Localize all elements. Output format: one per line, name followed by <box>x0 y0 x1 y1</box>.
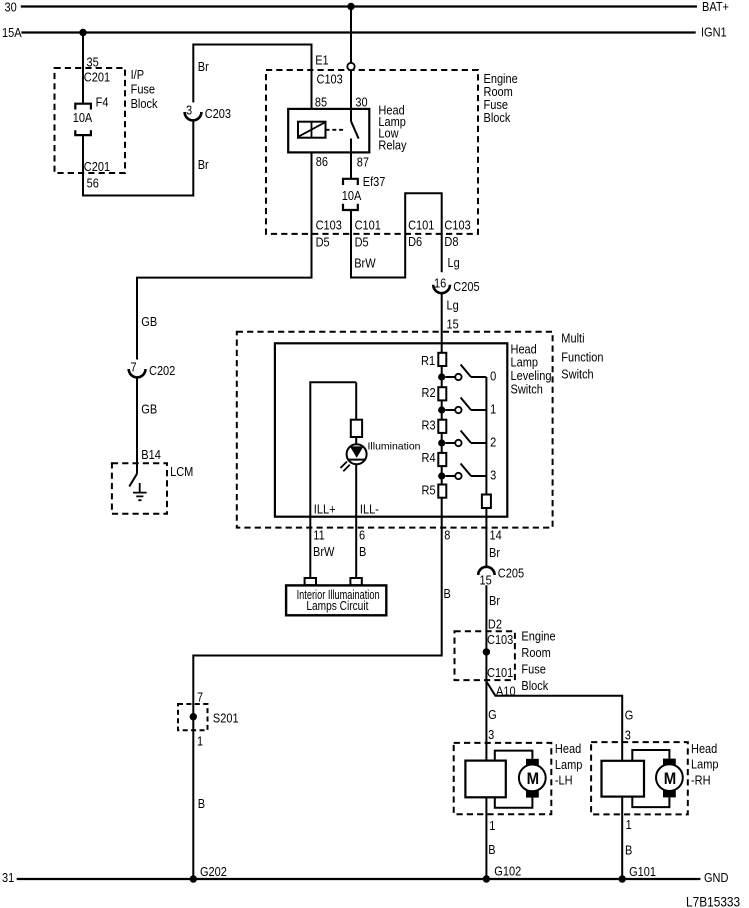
resistor R3 <box>438 420 446 433</box>
wire ILL+ pin 11 branch <box>310 382 356 578</box>
svg-text:D2: D2 <box>488 618 502 632</box>
switch contact 0 <box>445 365 486 378</box>
svg-text:Leveling: Leveling <box>511 370 552 384</box>
svg-text:IGN1: IGN1 <box>701 26 727 40</box>
wire bus30 down to relay pin 30 <box>350 7 352 122</box>
svg-text:G: G <box>488 708 497 722</box>
wire motor loop RH <box>632 750 669 807</box>
svg-text:8: 8 <box>444 529 451 543</box>
svg-text:R5: R5 <box>422 484 436 498</box>
wire relay pin 86 to C202 (GB) <box>137 152 312 359</box>
switch contact 3 <box>445 464 486 477</box>
connector C203 (half circle) <box>185 112 202 120</box>
svg-text:3: 3 <box>488 728 495 742</box>
svg-text:M: M <box>664 770 676 788</box>
ground symbol inside LCM <box>133 483 147 500</box>
wire fuse F4 to connector C203 <box>83 121 193 196</box>
svg-text:Relay: Relay <box>378 139 406 153</box>
svg-text:C103: C103 <box>316 219 343 233</box>
wire C202 to LCM B14 <box>136 377 138 474</box>
svg-text:Fuse: Fuse <box>131 83 156 97</box>
svg-text:BrW: BrW <box>354 257 376 271</box>
svg-text:ILL-: ILL- <box>360 503 379 517</box>
wire ILL- branch down to resistor <box>355 382 357 419</box>
node junction inside fuse block <box>483 648 490 655</box>
svg-text:87: 87 <box>357 156 369 170</box>
svg-text:16: 16 <box>434 277 447 291</box>
svg-text:3: 3 <box>186 104 193 118</box>
wire C203 to relay pin 85 (E1/C103) <box>193 45 311 109</box>
resistor R5 <box>438 485 446 498</box>
svg-text:Fuse: Fuse <box>521 663 546 677</box>
wire relay pin 87 stub <box>350 139 352 153</box>
node splice S201 <box>190 713 197 720</box>
svg-text:C101: C101 <box>487 666 513 680</box>
wire R2 to R3 <box>441 400 443 419</box>
svg-text:Switch: Switch <box>561 368 593 382</box>
node junction tap 2 <box>438 439 445 446</box>
svg-text:B14: B14 <box>141 448 161 462</box>
wire bus 30 (BAT+) <box>21 5 697 7</box>
wire relay pin 87 to fuse Ef37 <box>350 152 352 178</box>
svg-text:Head: Head <box>555 743 581 757</box>
svg-text:D5: D5 <box>355 236 369 250</box>
svg-text:A10: A10 <box>496 685 516 699</box>
svg-text:Lamps Circuit: Lamps Circuit <box>306 599 368 613</box>
svg-text:Br: Br <box>198 158 209 172</box>
svg-text:LCM: LCM <box>170 465 193 479</box>
svg-text:R1: R1 <box>421 355 435 369</box>
terminal stub pin 11 <box>305 578 316 585</box>
svg-text:L7B15333: L7B15333 <box>686 894 740 908</box>
svg-text:C101: C101 <box>355 219 381 233</box>
wire Ef37 to C205 pin16 (BrW/Lg jog through C101 D6 - C103 D8) <box>351 193 442 277</box>
node junction tap 1 <box>438 406 445 413</box>
wire switch common bus to pin 14 <box>485 377 487 567</box>
svg-text:10A: 10A <box>342 189 362 203</box>
node open circle at fuse block edge <box>347 63 354 70</box>
svg-text:C205: C205 <box>453 280 480 294</box>
relay contact blade <box>351 122 358 139</box>
svg-text:15A: 15A <box>2 26 22 40</box>
motor brush RH bottom <box>663 790 676 797</box>
resistor illumination <box>351 420 362 437</box>
svg-text:Head: Head <box>511 343 537 357</box>
svg-text:Lamp: Lamp <box>511 356 539 370</box>
svg-text:G: G <box>625 709 634 723</box>
wire C205-16 to R1 (Lg, pin 15 of MFS) <box>441 293 443 353</box>
svg-text:Lamp: Lamp <box>691 758 719 772</box>
svg-text:7: 7 <box>197 691 203 705</box>
svg-text:15: 15 <box>447 318 460 332</box>
resistor R1 <box>438 353 446 366</box>
svg-text:C103: C103 <box>487 633 514 647</box>
svg-text:BrW: BrW <box>313 545 335 559</box>
svg-text:Br: Br <box>489 594 500 608</box>
svg-text:G101: G101 <box>629 865 656 879</box>
svg-text:S201: S201 <box>213 712 239 726</box>
svg-text:I/P: I/P <box>131 68 145 82</box>
svg-text:Block: Block <box>484 111 511 125</box>
resistor R2 <box>438 387 446 400</box>
connector C205 pin 16 (half circle) <box>433 285 450 293</box>
svg-text:Room: Room <box>521 646 551 660</box>
svg-text:GB: GB <box>141 403 157 417</box>
svg-text:B: B <box>359 545 366 559</box>
svg-text:BAT+: BAT+ <box>702 0 729 14</box>
headlamp LH leveling actuator <box>465 761 505 798</box>
svg-text:GND: GND <box>704 871 728 885</box>
relay U1 Head Lamp Low Relay box <box>288 109 369 152</box>
relay coil-contact dashed link <box>326 129 346 131</box>
svg-text:B: B <box>198 797 205 811</box>
svg-text:3: 3 <box>490 469 497 483</box>
Engine Room Fuse Block box (relay) <box>266 70 478 234</box>
svg-text:F4: F4 <box>96 96 109 110</box>
wire bus 15A (IGN1) <box>21 31 695 33</box>
wire R1 to R2 <box>441 366 443 387</box>
node junction G102 <box>483 875 490 882</box>
connector C205 pin 15 (half circle cap) <box>478 567 494 575</box>
svg-text:30: 30 <box>355 96 368 110</box>
motor brush LH bottom <box>526 791 539 798</box>
LCM box <box>112 463 167 514</box>
svg-text:M: M <box>527 770 539 788</box>
svg-text:C103: C103 <box>317 73 344 87</box>
wire R4 to R5 <box>441 466 443 484</box>
svg-text:11: 11 <box>313 529 324 543</box>
motor brush RH top <box>663 759 676 766</box>
svg-text:G102: G102 <box>494 865 521 879</box>
svg-text:1: 1 <box>626 818 632 832</box>
terminal rect on common bus <box>482 495 491 509</box>
relay coil <box>298 122 326 138</box>
svg-text:14: 14 <box>490 529 503 543</box>
svg-text:C101: C101 <box>408 219 434 233</box>
motor brush LH top <box>526 759 539 766</box>
svg-text:Room: Room <box>484 85 514 99</box>
svg-text:D8: D8 <box>444 235 458 249</box>
svg-text:3: 3 <box>625 729 632 743</box>
svg-text:56: 56 <box>87 177 100 191</box>
svg-text:-RH: -RH <box>691 774 711 788</box>
Head Lamp -LH box <box>454 743 552 814</box>
I/P Fuse Block box <box>55 68 126 173</box>
svg-text:1: 1 <box>489 819 495 833</box>
svg-text:ILL+: ILL+ <box>314 503 336 517</box>
svg-text:Engine: Engine <box>521 630 556 644</box>
svg-text:D5: D5 <box>316 236 330 250</box>
fuse F4 10A <box>75 104 91 135</box>
svg-text:C201: C201 <box>84 71 110 85</box>
node junction G202 <box>190 875 197 882</box>
connector C202 (half circle) <box>129 369 146 377</box>
svg-text:B: B <box>488 843 495 857</box>
wire R5 down to pin 8 and S201 <box>193 498 441 879</box>
svg-text:G202: G202 <box>200 865 227 879</box>
svg-text:Illumination: Illumination <box>368 440 421 452</box>
svg-text:R4: R4 <box>422 451 436 465</box>
svg-text:1: 1 <box>197 735 203 749</box>
svg-text:C203: C203 <box>205 107 232 121</box>
svg-text:C205: C205 <box>498 567 525 581</box>
svg-text:1: 1 <box>490 403 496 417</box>
wire C205-15 to headlamps (Br/D2/A10) <box>485 585 487 879</box>
Multi Function Switch box <box>237 332 553 528</box>
svg-text:Engine: Engine <box>484 72 519 86</box>
svg-text:Block: Block <box>521 679 548 693</box>
Head Lamp Leveling Switch box <box>275 343 507 516</box>
svg-text:C202: C202 <box>149 364 175 378</box>
svg-text:Br: Br <box>489 546 500 560</box>
node junction tap 3 <box>438 472 445 479</box>
motor M LH <box>519 765 546 792</box>
wire bus 31 (GND) <box>17 878 701 880</box>
resistor R4 <box>438 453 446 466</box>
headlamp RH leveling actuator <box>602 761 645 797</box>
wire R3 to R4 <box>441 433 443 453</box>
LED illumination lamp <box>355 437 357 444</box>
svg-text:R3: R3 <box>422 419 436 433</box>
wire motor loop LH <box>495 751 533 808</box>
terminal stub pin 6 <box>350 578 361 585</box>
svg-text:B: B <box>625 844 632 858</box>
LCM internal switch blade <box>129 474 137 487</box>
svg-text:B: B <box>444 588 451 602</box>
switch contact 2 <box>445 431 486 444</box>
svg-text:85: 85 <box>315 96 328 110</box>
svg-text:0: 0 <box>490 370 497 384</box>
node junction bus15A / fuse F4 feed <box>79 29 86 36</box>
svg-text:Fuse: Fuse <box>484 99 509 113</box>
wire bus15A to fuse F4 <box>82 33 84 104</box>
svg-text:Head: Head <box>691 742 717 756</box>
fuse Ef37 10A <box>343 179 358 210</box>
Interior Illumination Lamps Circuit box <box>286 585 386 615</box>
Head Lamp -RH box <box>591 742 688 814</box>
svg-text:Function: Function <box>561 351 603 365</box>
svg-text:GB: GB <box>141 315 157 329</box>
svg-text:15: 15 <box>480 574 493 588</box>
svg-text:Br: Br <box>198 60 209 74</box>
splice S201 box <box>178 704 208 730</box>
node junction tap 0 <box>438 373 445 380</box>
svg-text:7: 7 <box>131 361 137 375</box>
svg-text:E1: E1 <box>315 54 328 68</box>
svg-text:Lg: Lg <box>448 256 460 270</box>
svg-text:D6: D6 <box>408 235 422 249</box>
svg-text:86: 86 <box>316 155 329 169</box>
svg-text:C103: C103 <box>444 219 471 233</box>
Engine Room Fuse Block connector box (C103/C101) <box>455 631 515 680</box>
wire LED to pin 6 <box>355 464 357 578</box>
svg-text:10A: 10A <box>73 111 93 125</box>
svg-text:Block: Block <box>131 97 158 111</box>
node junction bus30 / relay pin30 feed <box>347 3 354 10</box>
svg-text:R2: R2 <box>422 386 436 400</box>
node junction G101 <box>619 875 626 882</box>
svg-text:-LH: -LH <box>555 774 573 788</box>
svg-text:Multi: Multi <box>561 332 584 346</box>
svg-text:2: 2 <box>490 436 496 450</box>
svg-text:31: 31 <box>2 871 14 885</box>
svg-text:6: 6 <box>359 529 366 543</box>
wire A10 branch to RH headlamp <box>486 682 622 880</box>
svg-text:C201: C201 <box>84 160 110 174</box>
svg-text:Switch: Switch <box>511 383 543 397</box>
switch contact 1 <box>445 398 486 411</box>
svg-text:Ef37: Ef37 <box>363 175 386 189</box>
svg-text:Lamp: Lamp <box>555 758 583 772</box>
motor M RH <box>656 764 683 791</box>
svg-text:35: 35 <box>87 56 100 70</box>
svg-text:Lg: Lg <box>447 299 459 313</box>
svg-text:30: 30 <box>5 1 18 15</box>
